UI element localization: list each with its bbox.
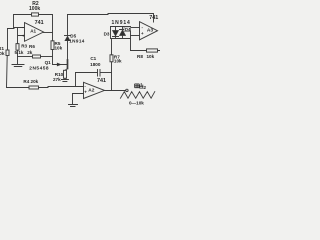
ground left	[12, 65, 24, 67]
op-amp A3	[140, 22, 158, 40]
wire bottom rail with R4	[7, 87, 84, 88]
wire to A3 non-inverting input	[131, 35, 140, 37]
svg-text:10k: 10k	[114, 58, 122, 63]
terminal output 2	[126, 89, 128, 91]
svg-text:+: +	[22, 34, 25, 39]
transistor Q1 channel	[67, 60, 69, 69]
svg-text:20k: 20k	[0, 51, 5, 57]
svg-text:R8: R8	[137, 54, 143, 59]
svg-text:-: -	[84, 83, 86, 88]
svg-text:A2: A2	[88, 88, 94, 94]
svg-text:2k: 2k	[27, 50, 33, 55]
svg-text:R3: R3	[21, 43, 27, 48]
svg-text:5.1k: 5.1k	[15, 50, 24, 55]
svg-text:27k: 27k	[53, 77, 61, 82]
resistor R2	[32, 13, 39, 16]
svg-text:741: 741	[149, 15, 158, 21]
svg-text:Q1: Q1	[45, 60, 52, 65]
svg-text:R6: R6	[29, 44, 35, 49]
label output 2 (Chinese shuchu)	[135, 83, 143, 88]
svg-text:100k: 100k	[29, 6, 40, 12]
diode D4	[120, 27, 126, 39]
svg-text:1800: 1800	[90, 62, 101, 67]
wire top rail	[68, 14, 154, 23]
label D4 box	[124, 27, 131, 31]
wire C1 rail right to R7 node	[100, 72, 112, 74]
svg-text:C1: C1	[90, 56, 96, 61]
diode D5	[65, 36, 70, 41]
wire R5 branch down	[52, 33, 54, 41]
waveform triangle wave	[120, 92, 154, 99]
wire Q1 source down	[65, 69, 68, 71]
wire R3 to ground	[17, 50, 19, 64]
resistor R6	[33, 55, 41, 58]
svg-text:D4: D4	[125, 27, 131, 32]
wire C1 feedback rail left	[76, 72, 98, 74]
svg-text:+: +	[84, 89, 87, 94]
wire A1 output	[44, 32, 53, 34]
svg-text:A1: A1	[30, 29, 36, 34]
wire R10 to ground	[64, 78, 66, 79]
diode box rails	[111, 27, 131, 51]
op-amp A1	[25, 23, 44, 42]
wire left branch down through R1 to bottom rail	[7, 29, 8, 88]
wire A2 output	[105, 90, 126, 92]
wire R2 feedback loop	[14, 15, 53, 33]
wire drain vertical with D5	[67, 15, 69, 61]
wire R6 left	[18, 56, 33, 58]
resistor R8	[147, 49, 158, 52]
svg-text:741: 741	[97, 78, 106, 84]
capacitor C1	[98, 70, 101, 77]
resistor R1	[6, 50, 9, 56]
wire diode box to A3 inverting input	[131, 27, 140, 29]
wire R8 rail	[131, 50, 161, 52]
svg-text:+: +	[141, 31, 144, 36]
wire A2 non-inverting to ground	[73, 94, 84, 105]
diode D3	[113, 27, 119, 39]
svg-text:2: 2	[143, 85, 146, 91]
wire A1 non-inverting input	[18, 28, 25, 44]
svg-text:D3: D3	[104, 32, 110, 37]
svg-text:-: -	[142, 25, 144, 30]
resistor R5	[51, 41, 54, 50]
op-amp A2	[84, 82, 105, 98]
svg-text:1N914: 1N914	[69, 39, 85, 44]
svg-text:0—10k: 0—10k	[129, 100, 144, 105]
svg-text:1N914: 1N914	[112, 20, 131, 26]
ground under R10	[61, 80, 68, 82]
svg-text:A3: A3	[147, 27, 153, 33]
svg-text:R4 20k: R4 20k	[23, 79, 38, 84]
wire integrator inverting node down	[75, 73, 77, 87]
wire diode box down to R7	[111, 39, 113, 55]
wire R6 right joining R5 branch	[41, 56, 53, 58]
svg-text:2N5458: 2N5458	[29, 66, 49, 72]
wire diode box left vertical	[110, 27, 112, 39]
wire A1 inverting input horizontal	[8, 28, 25, 29]
svg-text:10k: 10k	[55, 46, 63, 51]
wire R7 node down to output	[111, 62, 113, 91]
transistor Q1 gate arrow	[57, 63, 61, 66]
svg-text:741: 741	[35, 20, 44, 26]
resistor R3	[16, 44, 19, 51]
resistor R10	[64, 70, 67, 78]
resistor R4	[29, 86, 39, 89]
ground under A2	[69, 105, 78, 107]
resistor R7	[110, 55, 113, 62]
wire R5 to Q1 gate	[53, 50, 68, 65]
svg-text:10k: 10k	[147, 54, 155, 59]
